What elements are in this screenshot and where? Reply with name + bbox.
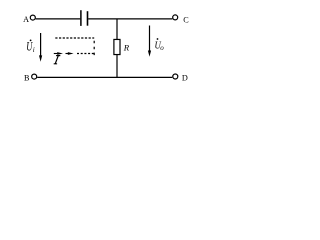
capacitor C left plate bbox=[80, 10, 82, 26]
svg-text:C: C bbox=[183, 16, 189, 25]
dot above Ui bbox=[30, 40, 32, 42]
current arrowhead 1 on loop bottom (pointing right) bbox=[57, 52, 63, 55]
current arrow 2 shaft on loop bottom bbox=[66, 53, 69, 55]
terminal B bbox=[32, 74, 37, 79]
wire resistor top lead bbox=[116, 19, 118, 39]
current label I bbox=[54, 56, 61, 64]
terminal C bbox=[173, 15, 178, 20]
svg-text:i: i bbox=[33, 46, 35, 54]
wire resistor bottom lead bbox=[116, 55, 118, 78]
svg-text:D: D bbox=[182, 74, 188, 83]
dashed loop bottom edge right part bbox=[76, 53, 93, 55]
Ui arrowhead bbox=[39, 55, 42, 61]
dashed loop right edge bbox=[93, 41, 95, 56]
wire top-right segment capacitor to C bbox=[88, 18, 172, 20]
resistor R body bbox=[114, 39, 120, 54]
output voltage arrow Uo shaft bbox=[149, 26, 151, 52]
svg-text:R: R bbox=[123, 43, 130, 53]
svg-text:B: B bbox=[24, 73, 30, 82]
dot above Uo bbox=[157, 38, 159, 40]
dashed loop top edge bbox=[55, 37, 94, 39]
current arrow 1 shaft on loop bottom bbox=[54, 53, 58, 55]
Uo arrowhead bbox=[148, 51, 151, 57]
svg-text:o: o bbox=[160, 44, 164, 52]
input voltage arrow Ui shaft bbox=[40, 33, 42, 56]
current arrowhead 2 on loop bottom (pointing right) bbox=[68, 52, 74, 55]
wire bottom B to D bbox=[37, 76, 172, 78]
terminal A bbox=[30, 15, 35, 20]
wire top-left segment A to capacitor bbox=[36, 18, 81, 20]
terminal D bbox=[173, 74, 178, 79]
capacitor C right plate bbox=[87, 11, 89, 26]
svg-text:A: A bbox=[23, 15, 29, 24]
